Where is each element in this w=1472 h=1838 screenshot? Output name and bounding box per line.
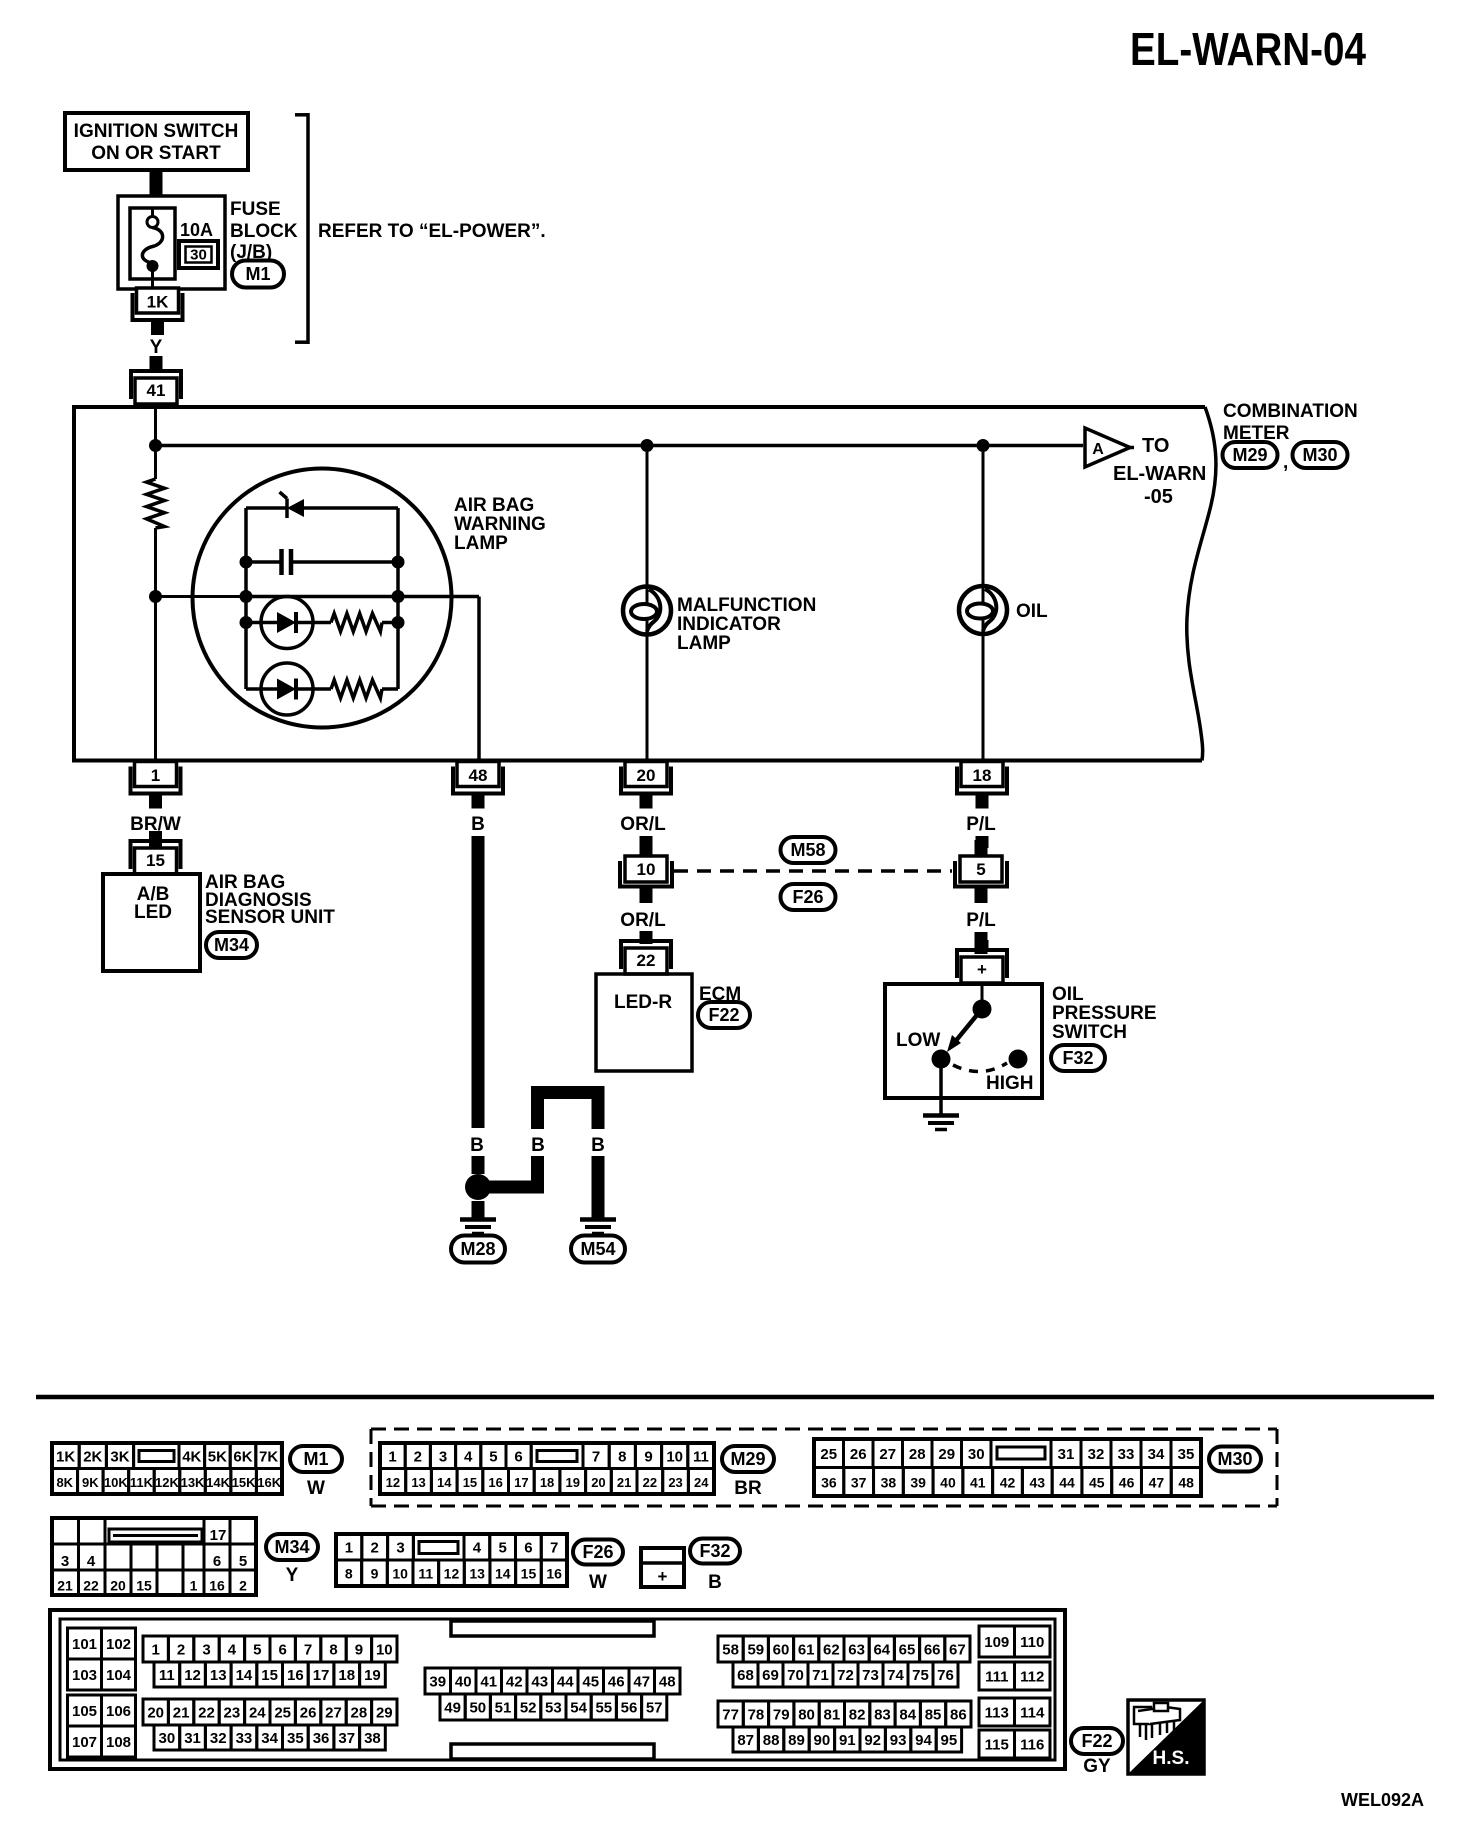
- svg-text:M30: M30: [1217, 1449, 1252, 1469]
- svg-text:85: 85: [925, 1707, 942, 1724]
- svg-text:3: 3: [61, 1553, 69, 1570]
- svg-text:36: 36: [821, 1474, 837, 1490]
- svg-text:20: 20: [110, 1578, 126, 1594]
- svg-text:WEL092A: WEL092A: [1341, 1790, 1424, 1810]
- svg-text:M1: M1: [245, 264, 270, 284]
- svg-text:23: 23: [224, 1705, 241, 1722]
- svg-text:35: 35: [287, 1730, 304, 1747]
- svg-text:FUSE: FUSE: [230, 199, 281, 220]
- svg-text:86: 86: [950, 1707, 967, 1724]
- svg-text:M58: M58: [790, 840, 825, 860]
- svg-text:21: 21: [57, 1578, 73, 1594]
- wire P/L segment: [976, 836, 989, 848]
- svg-text:30: 30: [968, 1446, 985, 1463]
- LED D1 with resistor row: [246, 621, 261, 625]
- resistor R2 of LED D2: [313, 680, 398, 698]
- svg-text:M1: M1: [303, 1449, 328, 1469]
- svg-text:M34: M34: [214, 935, 249, 955]
- svg-text:B: B: [470, 1135, 484, 1156]
- connector pin 48: [451, 762, 505, 809]
- wire BR/W segment: [149, 836, 162, 848]
- svg-text:43: 43: [1029, 1474, 1045, 1490]
- svg-text:6: 6: [279, 1642, 287, 1659]
- svg-text:26: 26: [300, 1705, 317, 1722]
- svg-text:88: 88: [763, 1732, 780, 1749]
- connector 41: [129, 361, 183, 404]
- bracket refer note: [295, 113, 308, 344]
- connector M29 pin grid: [380, 1443, 714, 1494]
- svg-text:10: 10: [392, 1566, 408, 1582]
- wire switch to ground: [939, 1068, 943, 1114]
- junction node MIL branch: [641, 439, 654, 452]
- svg-text:52: 52: [520, 1700, 537, 1717]
- junction LED row left: [240, 616, 253, 629]
- svg-text:101: 101: [72, 1636, 97, 1653]
- svg-text:18: 18: [540, 1475, 554, 1490]
- svg-text:26: 26: [850, 1446, 867, 1463]
- svg-text:47: 47: [633, 1674, 650, 1691]
- oil pressure switch box: [885, 984, 1042, 1098]
- svg-text:68: 68: [737, 1667, 754, 1684]
- svg-text:45: 45: [582, 1674, 599, 1691]
- svg-text:48: 48: [659, 1674, 676, 1691]
- wire OR/L lower segment: [640, 932, 653, 944]
- connector M34 pin grid: [52, 1518, 256, 1595]
- svg-text:2: 2: [177, 1642, 185, 1659]
- off-page arrow A to EL-WARN-05: [1085, 428, 1134, 467]
- svg-text:38: 38: [881, 1474, 897, 1490]
- oil lamp wire top: [982, 446, 985, 587]
- svg-text:30: 30: [190, 247, 207, 264]
- svg-text:90: 90: [814, 1732, 831, 1749]
- svg-text:20: 20: [591, 1475, 605, 1490]
- svg-text:66: 66: [924, 1642, 941, 1659]
- ECM box with LED-R: [596, 974, 692, 1071]
- svg-text:13: 13: [411, 1475, 425, 1490]
- svg-text:7: 7: [550, 1540, 558, 1557]
- connector 10 inline: [618, 840, 674, 903]
- svg-text:7: 7: [592, 1448, 600, 1465]
- F22 pins 68-76: [733, 1662, 758, 1687]
- label TO EL-WARN-05: [1113, 435, 1206, 508]
- svg-text:WARNING: WARNING: [454, 514, 546, 535]
- connector M1 pin grid: [52, 1443, 282, 1494]
- svg-text:62: 62: [823, 1642, 840, 1659]
- svg-text:41: 41: [480, 1674, 497, 1691]
- svg-text:20: 20: [637, 766, 656, 785]
- capacitor row: [246, 549, 398, 575]
- ground oval M54: [571, 1236, 625, 1263]
- connector oval M29 ref: [1223, 442, 1278, 468]
- svg-text:EL-WARN: EL-WARN: [1113, 463, 1206, 485]
- svg-text:64: 64: [873, 1642, 890, 1659]
- svg-text:EL-WARN-04: EL-WARN-04: [1130, 23, 1366, 75]
- junction node OIL branch: [977, 439, 990, 452]
- svg-text:19: 19: [364, 1667, 381, 1684]
- svg-text:29: 29: [376, 1705, 393, 1722]
- svg-text:4: 4: [464, 1448, 473, 1465]
- svg-text:48: 48: [1178, 1474, 1194, 1490]
- svg-text:COMBINATION: COMBINATION: [1223, 401, 1358, 422]
- svg-text:M30: M30: [1302, 445, 1337, 465]
- right branch wire to ground M54: [592, 1156, 605, 1218]
- svg-text:F26: F26: [792, 887, 823, 907]
- svg-text:113: 113: [985, 1705, 1009, 1722]
- svg-text:5: 5: [239, 1553, 247, 1570]
- svg-text:40: 40: [455, 1674, 472, 1691]
- svg-text:2: 2: [239, 1578, 247, 1594]
- dashed box around M29 M30: [371, 1429, 1277, 1506]
- svg-text:48: 48: [469, 766, 488, 785]
- H.S. inspection logo: [1128, 1700, 1204, 1774]
- svg-text:9K: 9K: [82, 1475, 99, 1490]
- svg-text:,: ,: [1283, 452, 1288, 473]
- svg-text:34: 34: [261, 1730, 278, 1747]
- junction capacitor right: [392, 556, 405, 569]
- svg-text:6: 6: [514, 1448, 522, 1465]
- svg-text:1: 1: [345, 1540, 353, 1557]
- svg-text:9: 9: [644, 1448, 652, 1465]
- svg-text:7K: 7K: [259, 1448, 278, 1465]
- connector oval M58: [781, 837, 836, 863]
- svg-text:21: 21: [173, 1705, 190, 1722]
- svg-text:43: 43: [531, 1674, 548, 1691]
- svg-text:91: 91: [839, 1732, 856, 1749]
- svg-text:2: 2: [414, 1448, 422, 1465]
- connector oval F22 ref: [698, 1002, 750, 1028]
- svg-text:17: 17: [514, 1475, 528, 1490]
- svg-text:B: B: [708, 1572, 722, 1593]
- LED D2 bottom row wire: [246, 687, 261, 691]
- svg-text:SWITCH: SWITCH: [1052, 1022, 1127, 1043]
- svg-text:1: 1: [152, 1642, 160, 1659]
- wire center row through lamp: [246, 595, 398, 599]
- separator line: [36, 1395, 1434, 1400]
- svg-text:12: 12: [386, 1475, 400, 1490]
- ground wire B thick: [472, 836, 485, 1128]
- svg-text:18: 18: [973, 766, 992, 785]
- svg-text:102: 102: [106, 1636, 131, 1653]
- svg-text:60: 60: [773, 1642, 790, 1659]
- svg-text:59: 59: [747, 1642, 764, 1659]
- svg-text:32: 32: [210, 1730, 227, 1747]
- svg-text:108: 108: [106, 1734, 131, 1751]
- wire oil lamp to pin 18: [982, 634, 985, 760]
- svg-text:F22: F22: [1081, 1731, 1112, 1751]
- svg-text:82: 82: [849, 1707, 866, 1724]
- connector oval F32 grid ref: [690, 1539, 740, 1564]
- svg-text:3: 3: [202, 1642, 210, 1659]
- ground symbol M54: [580, 1220, 616, 1234]
- svg-text:84: 84: [899, 1707, 916, 1724]
- ground symbol M28: [460, 1220, 496, 1234]
- wire Y segment: [150, 356, 163, 372]
- oil warning lamp: [959, 586, 1007, 634]
- svg-text:65: 65: [899, 1642, 916, 1659]
- svg-text:12K: 12K: [155, 1475, 179, 1490]
- svg-text:13: 13: [210, 1667, 227, 1684]
- svg-text:79: 79: [773, 1707, 790, 1724]
- svg-text:45: 45: [1089, 1474, 1105, 1490]
- svg-text:28: 28: [909, 1446, 926, 1463]
- svg-text:OIL: OIL: [1016, 601, 1048, 622]
- svg-text:SENSOR UNIT: SENSOR UNIT: [205, 907, 335, 928]
- svg-text:B: B: [471, 814, 485, 835]
- svg-text:16: 16: [209, 1578, 225, 1594]
- svg-text:3: 3: [439, 1448, 447, 1465]
- svg-text:LOW: LOW: [896, 1030, 940, 1051]
- svg-text:42: 42: [506, 1674, 523, 1691]
- svg-text:112: 112: [1020, 1669, 1044, 1686]
- svg-text:ON OR START: ON OR START: [91, 143, 221, 164]
- junction center left: [240, 590, 253, 603]
- svg-text:74: 74: [887, 1667, 904, 1684]
- svg-text:HIGH: HIGH: [986, 1073, 1034, 1094]
- fuse 10A 30: [130, 208, 175, 291]
- connector pin 18: [955, 762, 1009, 809]
- ignition switch power source box: [65, 113, 248, 170]
- svg-text:46: 46: [608, 1674, 625, 1691]
- svg-text:31: 31: [1058, 1446, 1075, 1463]
- svg-text:115: 115: [985, 1737, 1009, 1754]
- svg-text:61: 61: [798, 1642, 815, 1659]
- connector 1K: [131, 288, 185, 335]
- svg-text:21: 21: [617, 1475, 631, 1490]
- svg-text:71: 71: [812, 1667, 829, 1684]
- svg-text:53: 53: [545, 1700, 562, 1717]
- svg-text:LAMP: LAMP: [454, 533, 508, 554]
- svg-text:TO: TO: [1142, 435, 1169, 457]
- svg-text:1: 1: [190, 1578, 198, 1594]
- svg-text:32: 32: [1088, 1446, 1105, 1463]
- svg-text:38: 38: [364, 1730, 381, 1747]
- connector oval M1: [232, 261, 284, 288]
- svg-text:28: 28: [351, 1705, 368, 1722]
- wire MIL to pin 20: [646, 634, 649, 760]
- svg-text:2: 2: [371, 1540, 379, 1557]
- resistor R1 of LED D1: [313, 614, 398, 632]
- zener diode row top: [246, 492, 398, 518]
- svg-text:M34: M34: [274, 1537, 309, 1557]
- label AIR BAG WARNING LAMP: [454, 495, 546, 554]
- svg-text:111: 111: [985, 1669, 1008, 1686]
- svg-text:6: 6: [213, 1553, 221, 1570]
- connector oval M34 ref: [206, 932, 257, 958]
- svg-text:LED-R: LED-R: [614, 992, 672, 1013]
- svg-text:41: 41: [147, 381, 166, 400]
- svg-text:10K: 10K: [104, 1475, 128, 1490]
- fuse number 30 box: [179, 241, 218, 268]
- F22 pins 101-108: [68, 1628, 136, 1757]
- svg-text:116: 116: [1020, 1737, 1044, 1754]
- air bag lamp right rail: [396, 508, 400, 689]
- svg-text:6K: 6K: [233, 1448, 252, 1465]
- svg-text:10A: 10A: [180, 220, 213, 240]
- connector M30 pin grid: [814, 1439, 1201, 1496]
- svg-text:1K: 1K: [56, 1448, 75, 1465]
- F22 pins 58-67: [718, 1636, 743, 1662]
- svg-text:9: 9: [371, 1566, 379, 1582]
- svg-text:A: A: [1092, 441, 1104, 458]
- svg-text:30: 30: [159, 1730, 176, 1747]
- svg-text:15: 15: [261, 1667, 278, 1684]
- svg-text:7: 7: [304, 1642, 312, 1659]
- svg-text:44: 44: [557, 1674, 574, 1691]
- label AIR BAG DIAGNOSIS SENSOR UNIT: [205, 872, 335, 928]
- svg-text:3: 3: [396, 1540, 404, 1557]
- dashed harness line M58-F26: [674, 869, 952, 873]
- label MALFUNCTION INDICATOR LAMP: [677, 595, 816, 654]
- svg-text:69: 69: [762, 1667, 779, 1684]
- svg-text:-05: -05: [1144, 486, 1173, 508]
- svg-text:LED: LED: [134, 902, 172, 923]
- wire junction to air bag lamp circle: [156, 595, 248, 598]
- svg-text:M28: M28: [460, 1239, 495, 1259]
- connector 5 inline: [953, 840, 1009, 903]
- svg-text:47: 47: [1149, 1474, 1165, 1490]
- svg-text:105: 105: [72, 1703, 97, 1720]
- wire OR/L segment: [640, 836, 653, 848]
- svg-text:P/L: P/L: [966, 910, 996, 931]
- svg-text:50: 50: [469, 1700, 486, 1717]
- svg-text:49: 49: [444, 1700, 461, 1717]
- svg-text:13: 13: [469, 1566, 485, 1582]
- svg-text:37: 37: [338, 1730, 355, 1747]
- svg-text:11: 11: [693, 1448, 709, 1465]
- svg-text:46: 46: [1119, 1474, 1135, 1490]
- connector oval M34 grid ref: [266, 1534, 318, 1560]
- svg-text:94: 94: [915, 1732, 932, 1749]
- connector F26 pin grid: [336, 1534, 567, 1586]
- svg-text:114: 114: [1020, 1705, 1045, 1722]
- svg-text:72: 72: [837, 1667, 854, 1684]
- svg-text:10: 10: [376, 1642, 393, 1659]
- svg-text:77: 77: [722, 1707, 739, 1724]
- malfunction indicator lamp wire top: [646, 446, 649, 588]
- svg-text:Y: Y: [286, 1565, 299, 1586]
- svg-text:22: 22: [83, 1578, 99, 1594]
- left branch wire to junction: [489, 1156, 544, 1194]
- connector oval M1 grid ref: [290, 1446, 342, 1472]
- svg-text:103: 103: [72, 1667, 97, 1684]
- svg-text:23: 23: [668, 1475, 682, 1490]
- svg-text:33: 33: [1118, 1446, 1135, 1463]
- svg-text:25: 25: [820, 1446, 837, 1463]
- connector plus terminal: [955, 940, 1009, 983]
- svg-text:81: 81: [824, 1707, 841, 1724]
- svg-text:+: +: [658, 1567, 668, 1586]
- svg-text:12: 12: [184, 1667, 201, 1684]
- junction node air bag lamp row: [149, 590, 162, 603]
- svg-text:15: 15: [146, 851, 165, 870]
- svg-text:83: 83: [874, 1707, 891, 1724]
- connector oval F22 grid ref: [1071, 1728, 1123, 1754]
- F22 pins 49-57: [440, 1694, 465, 1720]
- connector oval M30 grid ref: [1209, 1447, 1261, 1472]
- svg-text:58: 58: [722, 1642, 739, 1659]
- label OIL PRESSURE SWITCH: [1052, 984, 1157, 1043]
- svg-text:39: 39: [429, 1674, 446, 1691]
- svg-text:5: 5: [976, 860, 985, 879]
- svg-text:54: 54: [570, 1700, 587, 1717]
- connector oval F26 grid ref: [573, 1540, 623, 1565]
- svg-text:109: 109: [984, 1634, 1009, 1651]
- svg-text:27: 27: [879, 1446, 896, 1463]
- svg-text:INDICATOR: INDICATOR: [677, 614, 781, 635]
- svg-text:42: 42: [1000, 1474, 1016, 1490]
- svg-text:35: 35: [1178, 1446, 1195, 1463]
- ground symbol oil pressure switch: [923, 1116, 959, 1130]
- connector pin 15: [129, 831, 183, 874]
- svg-text:W: W: [307, 1478, 325, 1499]
- svg-text:2K: 2K: [83, 1448, 102, 1465]
- ground oval M28: [451, 1236, 505, 1263]
- resistor in combination meter: [147, 446, 165, 598]
- wire ignition switch to fuse: [150, 170, 163, 197]
- svg-text:11: 11: [418, 1566, 433, 1582]
- svg-text:10: 10: [666, 1448, 683, 1465]
- svg-text:95: 95: [941, 1732, 958, 1749]
- svg-text:4: 4: [473, 1540, 482, 1557]
- svg-text:16K: 16K: [257, 1475, 281, 1490]
- wire P/L lower thick: [975, 932, 988, 954]
- svg-text:14K: 14K: [206, 1475, 230, 1490]
- svg-text:11K: 11K: [130, 1475, 154, 1490]
- svg-text:36: 36: [313, 1730, 330, 1747]
- svg-text:80: 80: [798, 1707, 815, 1724]
- wire air bag lamp to pin 48: [398, 597, 479, 761]
- svg-text:B: B: [531, 1135, 545, 1156]
- svg-text:6: 6: [524, 1540, 532, 1557]
- svg-text:76: 76: [937, 1667, 954, 1684]
- air bag diagnosis sensor unit box: [103, 874, 200, 971]
- F22 pins 39-48: [425, 1668, 451, 1694]
- svg-text:10: 10: [637, 860, 656, 879]
- air bag warning lamp circle: [193, 469, 452, 728]
- svg-text:IGNITION SWITCH: IGNITION SWITCH: [74, 121, 239, 142]
- svg-text:MALFUNCTION: MALFUNCTION: [677, 595, 816, 616]
- svg-text:15: 15: [521, 1566, 537, 1582]
- svg-text:107: 107: [72, 1734, 97, 1751]
- svg-text:22: 22: [637, 951, 656, 970]
- connector oval F32 ref: [1051, 1045, 1105, 1071]
- svg-text:3K: 3K: [110, 1448, 129, 1465]
- svg-text:4K: 4K: [182, 1448, 201, 1465]
- svg-text:16: 16: [488, 1475, 502, 1490]
- svg-text:12: 12: [444, 1566, 460, 1582]
- svg-text:F32: F32: [699, 1541, 730, 1561]
- svg-text:5K: 5K: [208, 1448, 227, 1465]
- svg-text:REFER TO “EL-POWER”.: REFER TO “EL-POWER”.: [318, 221, 546, 242]
- svg-text:8: 8: [618, 1448, 626, 1465]
- svg-text:H.S.: H.S.: [1153, 1748, 1190, 1769]
- svg-text:M29: M29: [730, 1449, 765, 1469]
- svg-text:20: 20: [147, 1705, 164, 1722]
- svg-text:87: 87: [737, 1732, 754, 1749]
- svg-text:75: 75: [912, 1667, 929, 1684]
- F22 pins 87-95: [733, 1727, 758, 1752]
- svg-text:14: 14: [236, 1667, 253, 1684]
- wire junction to ground M28: [472, 1201, 485, 1218]
- junction capacitor left: [240, 556, 253, 569]
- svg-text:19: 19: [566, 1475, 580, 1490]
- connector F32 symbol: [641, 1548, 684, 1587]
- svg-text:8: 8: [345, 1566, 353, 1582]
- ground junction node: [465, 1174, 491, 1200]
- svg-text:13K: 13K: [181, 1475, 205, 1490]
- svg-text:1: 1: [388, 1448, 396, 1465]
- svg-text:B: B: [591, 1135, 605, 1156]
